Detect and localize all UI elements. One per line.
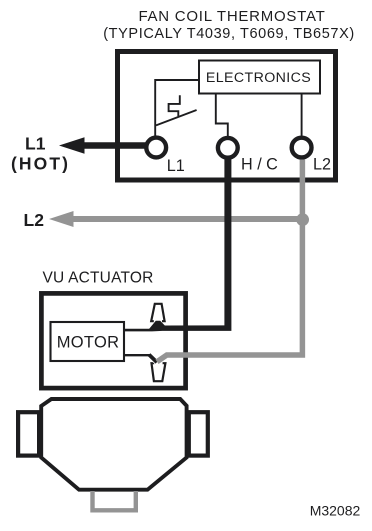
wire: electronics to switch [155, 80, 199, 138]
arrowhead L2 [49, 211, 74, 227]
svg-text:L2: L2 [313, 156, 331, 174]
svg-text:L1: L1 [167, 157, 185, 175]
wire: L2 drop to actuator (gray) [157, 160, 302, 362]
wire: electronics to L2 terminal [301, 94, 303, 138]
svg-text:MOTOR: MOTOR [57, 334, 120, 352]
arrowhead L1 [59, 137, 85, 153]
wire: motor bottom lead [125, 354, 150, 356]
valve outlet (gray) [93, 491, 136, 510]
motor box M1 [51, 322, 125, 361]
thermostat box [118, 52, 336, 181]
connector tab top (male) [151, 304, 164, 321]
terminal H/C [218, 138, 238, 158]
svg-text:ELECTRONICS: ELECTRONICS [206, 70, 311, 86]
terminal L1 [146, 138, 166, 158]
wire: electronics to H/C terminal [216, 94, 228, 138]
switch blade S1 [156, 110, 197, 125]
wire: L1 hot lead [82, 142, 147, 149]
electronics box U1 [199, 61, 320, 94]
svg-text:(HOT): (HOT) [11, 154, 70, 174]
wire: motor top lead + chevron + H/C wire (black silhouette) [125, 157, 231, 331]
switch fixed contact [169, 95, 180, 116]
svg-text:L2: L2 [24, 210, 45, 230]
connector tab bottom (male) [152, 363, 166, 381]
svg-text:FAN COIL THERMOSTAT: FAN COIL THERMOSTAT [138, 8, 325, 25]
svg-text:(TYPICALY T4039, T6069, TB657X: (TYPICALY T4039, T6069, TB657X) [103, 26, 355, 42]
actuator box [41, 293, 185, 388]
white gap casing bottom [150, 355, 167, 362]
junction dot L2 [296, 213, 309, 226]
wire: L2 bus (gray) [71, 216, 302, 222]
svg-text:H / C: H / C [241, 156, 278, 174]
valve right port [189, 412, 208, 455]
svg-text:VU ACTUATOR: VU ACTUATOR [43, 270, 154, 287]
svg-text:M32082: M32082 [310, 503, 361, 519]
valve body V1 [41, 399, 186, 490]
valve left port [18, 412, 39, 455]
connector blade bottom (black leg) [149, 355, 157, 363]
svg-text:L1: L1 [25, 134, 46, 154]
terminal L2 [292, 138, 312, 158]
